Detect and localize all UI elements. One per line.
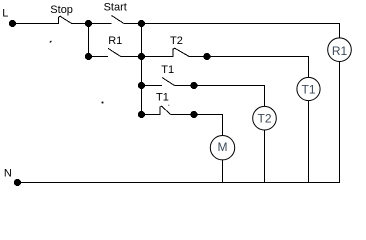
svg-text:R1: R1: [332, 44, 348, 58]
wire node A down to R1 contact branch: [88, 24, 90, 57]
wire M coil bottom to N rail: [222, 160, 224, 183]
node L junction dot: [9, 20, 16, 27]
wire node D to T2 contact: [142, 56, 174, 58]
node C junction dot (left of R1 contact): [85, 53, 92, 60]
contact T1 upper (NO) blade: [162, 78, 174, 86]
node F junction dot (main vertical at y114): [138, 111, 145, 118]
svg-text:R1: R1: [108, 35, 122, 47]
svg-text:L: L: [2, 8, 8, 20]
wire node A to Start contact: [89, 23, 112, 25]
node B junction dot (after Start): [138, 20, 145, 27]
coil T1 circle: [297, 77, 320, 100]
node A junction dot (after Stop): [85, 20, 92, 27]
wire T2 contact to node G: [189, 56, 207, 58]
coil M motor circle: [210, 136, 234, 160]
wire node C to R1 contact: [89, 56, 109, 58]
contact T2 (NC) symbol: [173, 48, 189, 57]
node H junction dot (after upper T1): [190, 82, 197, 89]
wire Stop to node A: [72, 23, 89, 25]
contact R1 (NO) blade: [108, 48, 120, 56]
coil T2 circle: [253, 106, 277, 130]
svg-text:T1: T1: [301, 82, 315, 96]
wire L rail segment to Stop contact: [13, 23, 59, 25]
svg-text:T2: T2: [170, 35, 183, 47]
svg-text:M: M: [218, 140, 228, 154]
svg-text:T1: T1: [161, 64, 174, 76]
stray mark dot near R1 branch: [102, 102, 104, 104]
svg-text:N: N: [4, 168, 12, 180]
wire node G to T1 coil column: [207, 57, 309, 78]
stray mark faint dot near lower T1 label: [168, 105, 169, 106]
wire R1 contact to node D: [120, 56, 141, 58]
wire Start to node B: [124, 23, 142, 25]
wire T2 coil bottom to N rail: [264, 130, 266, 183]
wire R1 coil bottom to N rail: [339, 62, 341, 183]
wire N bottom rail: [18, 182, 341, 184]
wire node J to M coil column: [194, 115, 223, 136]
wire T1 coil bottom to N rail: [308, 101, 310, 183]
svg-text:Stop: Stop: [50, 4, 73, 16]
svg-text:T2: T2: [257, 112, 271, 126]
node J junction dot (after lower T1): [190, 111, 197, 118]
coil R1 circle: [328, 38, 352, 62]
node N junction dot: [14, 179, 21, 186]
node E junction dot (main vertical at y85): [138, 82, 145, 89]
contact T1 lower (NC) symbol: [160, 106, 171, 115]
contact Stop (NC pushbutton) symbol: [59, 16, 72, 24]
wire lower T1 contact to node J: [171, 114, 195, 116]
contact Start (NO pushbutton) blade: [112, 16, 124, 24]
wire upper T1 contact to node H: [174, 85, 194, 87]
wire top rail node B to R1 coil column: [142, 24, 340, 38]
svg-text:Start: Start: [104, 2, 127, 14]
svg-text:T1: T1: [156, 92, 169, 104]
wire node E to upper T1 contact: [142, 85, 163, 87]
stray mark small tick near Stop: [50, 41, 52, 43]
node D junction dot (main vertical at y56): [138, 53, 145, 60]
node G junction dot (after T2 contact): [203, 53, 210, 60]
wire node B down main vertical: [141, 24, 143, 115]
wire node H to T2 coil column: [194, 86, 265, 107]
wire node F to lower T1 contact: [142, 114, 161, 116]
